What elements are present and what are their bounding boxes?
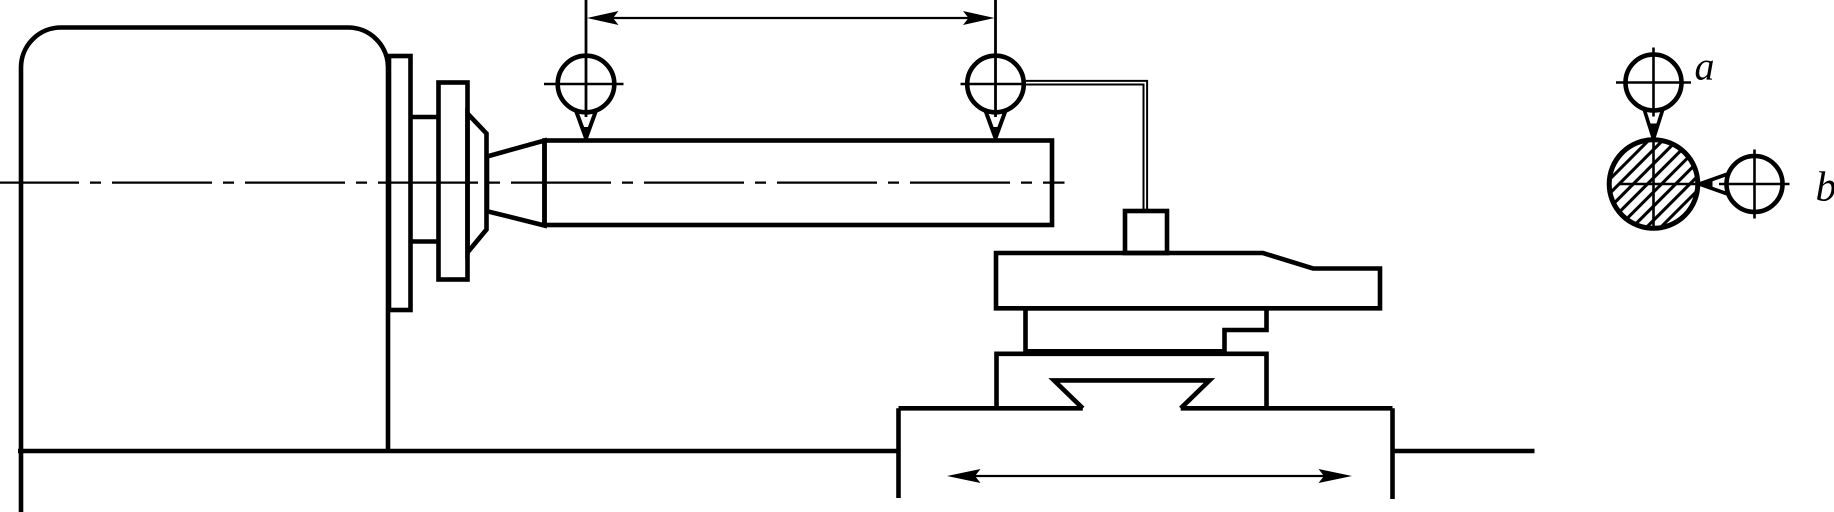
svg-text:a: a <box>1695 44 1715 89</box>
svg-text:b: b <box>1816 165 1834 211</box>
